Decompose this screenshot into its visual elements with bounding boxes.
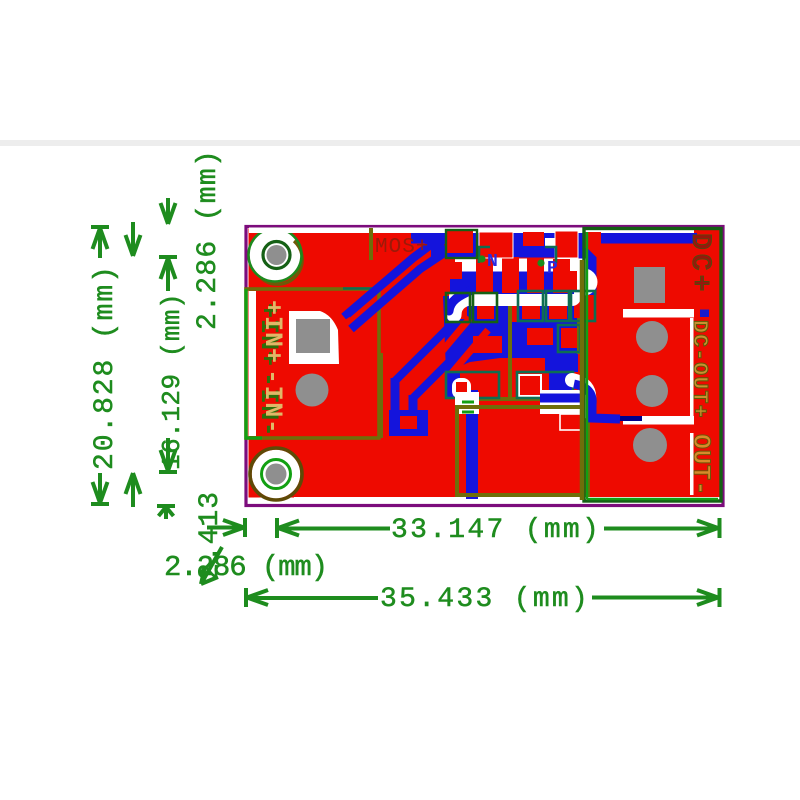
pour red gap right of divider [512, 293, 519, 322]
blue chip in band1 [700, 310, 709, 318]
IC pads row [476, 255, 577, 293]
white pad blob lower [455, 390, 592, 414]
dim 2.286 left arrow down [161, 198, 176, 224]
dim 2.413 bottom arrow up [157, 506, 175, 519]
pour red slash 2 [446, 330, 488, 380]
courtyard S3 [518, 291, 543, 321]
courtyard S4 [546, 291, 569, 321]
svg-text:-IN-: -IN- [258, 369, 287, 435]
silk separator white line sec2 [690, 318, 694, 424]
pour pad S2 [477, 302, 494, 319]
via ring pad [389, 410, 428, 436]
trace stem right [409, 395, 418, 420]
top bus elbow right [570, 240, 590, 295]
trace IN diagonal pair lower [351, 251, 447, 329]
top silk white strip [249, 228, 694, 234]
svg-text:16.129 (mm): 16.129 (mm) [157, 293, 187, 470]
top bus band lower [431, 244, 583, 258]
blue hook trace [574, 384, 620, 419]
dim 20.828 bottom arrow [91, 473, 109, 504]
dark blue signal line [598, 416, 642, 421]
pour pad T3 inner [561, 328, 578, 348]
olive divider mid [508, 292, 512, 400]
svg-text:35.433 (mm): 35.433 (mm) [380, 584, 590, 615]
pour pad S1 [450, 302, 467, 319]
svg-text:MOS+ +: MOS+ + [375, 236, 457, 259]
mounting hole BL drill [266, 464, 287, 485]
trace IN diagonal pair upper [344, 240, 437, 317]
left module courtyard [246, 289, 379, 438]
courtyard S5 [571, 291, 595, 321]
IC bus bar tail [449, 290, 472, 311]
mounting hole TL ring [263, 242, 290, 269]
pad hole 3 [633, 428, 667, 462]
courtyard S2 [473, 293, 497, 322]
mounting hole TL drill [267, 245, 287, 265]
mounting hole TL shadow ring [261, 241, 302, 284]
svg-text:2.286 (mm): 2.286 (mm) [164, 551, 327, 584]
trace corridor red [332, 319, 351, 332]
mounting hole TL keepout circle [249, 229, 302, 282]
pour red slash 1 [428, 318, 470, 368]
silk label -IN- [254, 369, 287, 438]
cap courtyard T3 [558, 325, 580, 352]
bottom silk clearance strip [294, 497, 720, 504]
svg-text:+IN+: +IN+ [258, 300, 287, 364]
left module courtyard green edge [246, 289, 262, 438]
pin bracket teal right [545, 247, 556, 263]
pour pad 2 [527, 328, 553, 345]
right courtyard olive edge [580, 260, 585, 500]
pin1 bracket marks [462, 402, 474, 412]
trace vertical mid [498, 295, 510, 345]
pin1 dot P [537, 259, 544, 266]
dim offset bottom arrow up [126, 473, 141, 507]
cap courtyard T2 [517, 372, 573, 398]
pad hole 2 [636, 375, 668, 407]
pad IN white square [289, 311, 339, 364]
top pads row [447, 230, 601, 279]
olive ledge [475, 397, 563, 401]
dim 35.433 left arrow [246, 588, 378, 607]
svg-text:DC+: DC+ [684, 233, 715, 295]
board copper pour [249, 229, 721, 498]
svg-text:P: P [547, 259, 558, 279]
silk separator white line sec3 [690, 433, 694, 495]
silk label +IN+ [254, 300, 287, 367]
right connector white band upper [623, 309, 694, 318]
pour pad S3 [522, 299, 540, 319]
trace mid diagonal pair upper [395, 300, 468, 381]
trace stem left [391, 378, 400, 420]
trace mid diagonal pair lower [413, 322, 486, 398]
pour pad S5 [574, 295, 591, 318]
pad IN- round [296, 374, 329, 407]
pad IN gray square [296, 319, 330, 353]
courtyard S1 [446, 293, 470, 322]
dim 20.828 top arrow [91, 227, 109, 258]
svg-text:33.147 (mm): 33.147 (mm) [391, 515, 601, 546]
dim 35.433 right arrow [592, 588, 720, 607]
olive tail left [379, 353, 383, 438]
olive courtyard bottom middle [457, 407, 588, 495]
pin1 dot N [478, 255, 485, 262]
mounting hole TL clearance [249, 229, 302, 282]
dim 2.286 bottom left arrow [207, 518, 245, 537]
photo seam band [0, 140, 800, 146]
dim 33.147 right arrow [604, 518, 720, 538]
svg-text:20.828 (mm): 20.828 (mm) [90, 264, 121, 470]
right courtyard green edge [587, 232, 718, 499]
courtyard G1 [446, 230, 477, 258]
white hook clearance [572, 380, 589, 412]
trace vertical long [466, 390, 478, 499]
courtyard olive stub top [369, 228, 373, 260]
olive divider right short [577, 318, 581, 354]
dim offset top arrow down [126, 222, 141, 256]
right courtyard rect [584, 229, 721, 502]
pour pad S4 [549, 299, 567, 319]
board outer frame [246, 227, 723, 506]
copper pour area [443, 296, 578, 372]
IC bus bar [450, 272, 574, 295]
top bus band upper [411, 233, 697, 244]
mounting hole BL ring [262, 460, 291, 489]
dim 2.413 leader arrow diagonal [201, 547, 222, 584]
IC pad clearance blob [449, 259, 598, 316]
pad DC square [634, 267, 665, 303]
courtyard teal segment [343, 287, 379, 290]
dim 16.129 bottom arrow down [159, 438, 177, 472]
right connector white band lower [623, 416, 694, 425]
left silk white strip [249, 291, 256, 436]
pad hole 1 [636, 321, 668, 353]
svg-text:DC-OUT+: DC-OUT+ [687, 320, 711, 419]
dim 16.129 top arrow up [159, 257, 177, 291]
svg-text:OUT-: OUT- [686, 434, 715, 496]
dim 33.147 left arrow [277, 518, 390, 538]
pad below T2 [560, 414, 583, 430]
svg-text:N: N [487, 252, 498, 272]
pour pad 1 [473, 336, 502, 353]
svg-text:2.286 (mm): 2.286 (mm) [193, 149, 224, 330]
mounting hole BL keepout ring [250, 448, 302, 500]
mounting hole BL clearance [252, 450, 301, 499]
cap courtyard T1 [446, 372, 499, 399]
pin bracket teal left [479, 247, 490, 263]
pad notch white [545, 238, 555, 248]
